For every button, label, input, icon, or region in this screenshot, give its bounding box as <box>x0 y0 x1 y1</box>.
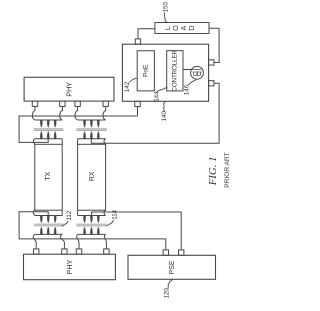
wire PHY pin1 to TR1 (hop over rail A) <box>32 106 35 120</box>
wire PHY pin4 to TR2 (hop over rail A) <box>103 106 106 120</box>
pin terminal 3 of bottom PHY <box>76 249 81 254</box>
leader squiggle 114 <box>106 220 113 225</box>
wire PHY pin2 to TR1 (hop over rail A) <box>60 106 63 120</box>
box 140 PD module <box>122 44 208 101</box>
leader squiggle 112 <box>61 221 68 226</box>
wire from 140 top terminal to LOAD left <box>138 29 155 39</box>
pin terminal 2 of top PHY <box>60 101 65 106</box>
wire 112 center tap to left loop down to rail B2 to PSE pin1 <box>19 212 166 250</box>
wire 140 bottom terminal down to rail A <box>137 107 139 116</box>
wire TR1 left to TX box (hop over rail B) <box>33 139 35 145</box>
svg-text:CONTROLLER: CONTROLLER <box>171 49 178 91</box>
wire 114 center tap rail to PSE pin2 <box>92 212 182 250</box>
svg-text:TX: TX <box>45 172 52 181</box>
svg-text:FIG. 1: FIG. 1 <box>207 157 219 187</box>
wire RX bottom-left to 114 <box>77 210 79 215</box>
wire TR2 left to RX box <box>77 139 79 145</box>
transformer TR1 (row1 left) <box>34 120 64 139</box>
leader squiggle 140 <box>164 101 166 111</box>
pin terminal 2 of bottom PHY <box>62 249 67 254</box>
wire RX bottom-right to 114 (hop over rail) <box>104 210 106 215</box>
pin terminal 1 of PSE <box>163 250 168 255</box>
PoE module box 142 <box>137 51 154 91</box>
pin terminal 1 of top PHY <box>32 101 37 106</box>
PHY box (top) <box>24 77 114 101</box>
svg-text:PHY: PHY <box>65 82 74 97</box>
transformer 112 (row2 left) <box>34 216 64 235</box>
leader squiggle 144 <box>157 88 168 92</box>
PSE box 120 <box>128 255 216 279</box>
RX pair box <box>78 144 106 210</box>
svg-text:144: 144 <box>153 91 160 102</box>
PHY box (bottom) <box>24 254 116 280</box>
leader squiggle 150 <box>164 12 167 22</box>
TX pair box <box>35 144 62 210</box>
svg-text:PoE: PoE <box>142 64 149 77</box>
svg-text:D: D <box>187 25 196 30</box>
LOAD box 150 <box>155 23 209 34</box>
svg-text:PHY: PHY <box>65 259 74 274</box>
wire 114 bottom-left to PHY pin (hop over rail B2) <box>77 234 79 249</box>
svg-text:PRIOR ART: PRIOR ART <box>224 152 231 187</box>
leader squiggle 120 <box>168 279 173 288</box>
wire TX bottom-right to 112 <box>61 210 63 215</box>
pin terminal 4 of bottom PHY <box>104 249 109 254</box>
leader squiggle 142 <box>130 78 138 82</box>
transformer 114 (row2 right) <box>76 216 106 235</box>
svg-text:120: 120 <box>163 288 170 299</box>
svg-text:140: 140 <box>161 110 168 121</box>
pin terminal right-2 of box 140 <box>209 81 214 86</box>
pin terminal top of box 140 <box>135 39 140 44</box>
wire gate from controller to transistor <box>183 69 193 71</box>
wire LOAD right down to 140 right terminal 1 <box>209 28 219 62</box>
svg-text:146: 146 <box>184 84 191 95</box>
wire 112 bottom-left to PHY pin (hop over rail B2) <box>33 234 36 249</box>
svg-text:PSE: PSE <box>169 260 176 274</box>
svg-text:RX: RX <box>89 171 96 181</box>
wire 140 right terminal 2 down and left to T2 center tap <box>91 83 219 143</box>
transformer TR2 (row1 right) <box>76 120 106 139</box>
pin terminal right-1 of box 140 <box>209 60 214 65</box>
svg-text:150: 150 <box>162 2 169 13</box>
pin terminal 2 of PSE <box>179 250 184 255</box>
wire 114 bottom-right to PHY pin (hop over rail B2) <box>104 234 106 249</box>
wire 112 bottom-right to PHY pin (hop over rail B2) <box>60 234 64 249</box>
pin terminal bottom of box 140 <box>135 101 140 106</box>
svg-text:142: 142 <box>124 81 131 92</box>
wire TR1 right to TX box <box>61 139 63 145</box>
pin terminal 1 of bottom PHY <box>34 249 39 254</box>
pin terminal 3 of top PHY <box>75 101 80 106</box>
pin terminal 4 of top PHY <box>103 101 108 106</box>
leader squiggle 146 <box>188 79 196 85</box>
wire TR2 right to RX box (hop over rail B-right) <box>104 139 106 145</box>
wire PHY pin3 to TR2 (hop over rail A) <box>75 106 78 120</box>
svg-text:114: 114 <box>111 209 118 219</box>
wire TX bottom-left to 112 (hop over rail A2) <box>33 210 35 215</box>
controller box 144 <box>167 51 183 91</box>
svg-text:112: 112 <box>66 210 73 220</box>
wire rail A to left loop to rail B-left to T1 center tap <box>19 116 137 142</box>
transistor Q 146 (MOSFET in circle) <box>191 66 204 79</box>
